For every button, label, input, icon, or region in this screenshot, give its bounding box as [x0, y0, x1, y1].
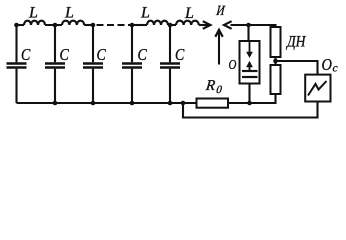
- svg-text:C: C: [138, 46, 148, 65]
- svg-text:L: L: [64, 5, 74, 22]
- svg-text:L: L: [184, 5, 194, 22]
- svg-text:C: C: [175, 46, 185, 65]
- svg-text:О: О: [229, 57, 237, 73]
- svg-text:О: О: [322, 56, 333, 74]
- svg-text:C: C: [60, 46, 70, 65]
- svg-text:L: L: [140, 5, 150, 22]
- svg-text:ДН: ДН: [285, 34, 306, 51]
- svg-text:C: C: [97, 46, 107, 65]
- svg-text:L: L: [28, 5, 38, 22]
- svg-text:R: R: [204, 78, 216, 94]
- svg-text:C: C: [21, 46, 31, 65]
- svg-text:с: с: [333, 63, 338, 75]
